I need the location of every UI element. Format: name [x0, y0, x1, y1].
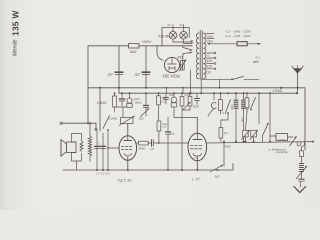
svg-text:0,1MΩ: 0,1MΩ: [108, 117, 118, 121]
connector C jack x214: [213, 93, 215, 100]
wire AF component bottom link: [115, 106, 132, 108]
output transformer secondary zigzag: [80, 141, 83, 152]
connector P2 row x174: [171, 97, 177, 103]
capacitor C x168: [167, 117, 169, 132]
svg-text:5kΩ: 5kΩ: [215, 174, 221, 178]
coil L2: [243, 93, 245, 99]
wire cap branch x97: [96, 131, 98, 170]
tap 220V: [207, 38, 214, 40]
box 1000 wave switch: [276, 134, 288, 141]
antenna coil variable: [300, 164, 304, 172]
loudspeaker driver box: [67, 142, 77, 153]
svg-text:6V: 6V: [180, 23, 183, 27]
lamp La2 dial: [183, 28, 185, 32]
wire bus link verticals: [166, 88, 168, 93]
wire V1 grid left: [108, 147, 119, 149]
wire branch x108: [107, 130, 109, 170]
svg-text:125: 125: [207, 64, 213, 68]
resistor R filter 8k: [129, 44, 140, 48]
wire filter cap drop 1: [118, 46, 120, 88]
transformer T1 primary winding: [196, 33, 199, 79]
wire left AF branch: [99, 88, 101, 131]
wire lamp top rail: [162, 28, 189, 46]
wire bottom ground bus: [63, 164, 233, 171]
resistor R grid 0.4M: [114, 93, 116, 96]
capacitor C row x197: [196, 93, 198, 98]
switch S1 mains: [232, 76, 244, 79]
wire rectifier anode feed: [157, 46, 163, 60]
connector P1 grid cap: [129, 93, 131, 98]
connector jack right: [297, 142, 301, 146]
svg-text:240: 240: [207, 35, 213, 39]
wire voltage selector with fuse: [209, 43, 237, 45]
title Mende 135 W: [11, 10, 21, 56]
svg-text:≈0,1: ≈0,1: [255, 56, 261, 60]
svg-text:0,4 ‒ +125 ‒ 110V: 0,4 ‒ +125 ‒ 110V: [226, 34, 252, 38]
svg-text:7.5: 7.5: [162, 125, 166, 129]
tube V2 REN904: [188, 133, 207, 161]
wire speaker feed: [87, 88, 89, 123]
svg-text:6V: 6V: [168, 23, 171, 27]
tube V1 output RES164: [119, 136, 137, 161]
capacitor C x103: [100, 145, 105, 147]
svg-text:L 37: L 37: [192, 177, 200, 182]
svg-text:2·: 2·: [98, 142, 100, 146]
resistor R x159 lower: [157, 121, 161, 131]
wire B+ top rail: [88, 46, 192, 88]
svg-text:500: 500: [139, 117, 144, 121]
wire heater pair to transformer: [183, 48, 192, 54]
wire main top bus: [88, 88, 305, 150]
svg-text:2000: 2000: [231, 104, 234, 110]
tap 125V: [207, 63, 214, 65]
capacitor C coupling left: [121, 93, 123, 99]
ground earth arrow: [294, 187, 306, 193]
capacitor C antenna series: [299, 178, 304, 180]
wire transformer bottom to switch: [201, 78, 232, 80]
capacitor C 2uF no.1: [115, 71, 123, 73]
switch S3: [226, 100, 231, 113]
svg-text:8kΩ: 8kΩ: [130, 50, 137, 54]
potentiometer arrow right: [290, 137, 297, 147]
svg-text:Tgl 5.36: Tgl 5.36: [117, 177, 132, 182]
wire heater return to bus: [190, 70, 192, 93]
tap 0: [207, 52, 214, 54]
svg-text:μF: μF: [151, 147, 155, 151]
node junction dots second bus: [114, 92, 299, 94]
resistor R row x182: [180, 97, 184, 107]
loudspeaker frame loop: [72, 134, 82, 162]
node dots bottom bus: [96, 169, 219, 171]
svg-text:150: 150: [207, 59, 213, 63]
wire tube V2 anode up: [174, 118, 197, 134]
svg-text:1000: 1000: [279, 138, 286, 142]
wire rectifier cathode to resistor: [180, 64, 183, 66]
svg-text:2μF: 2μF: [107, 73, 115, 77]
wire wave switch feed: [269, 93, 271, 136]
svg-text:4/0,5: 4/0,5: [134, 97, 141, 101]
svg-text:0: 0: [208, 54, 210, 58]
resistor R row x190: [188, 97, 192, 107]
potentiometer trim pair: [243, 131, 249, 137]
svg-text:5000: 5000: [225, 145, 232, 149]
wire filter cap drop 2: [145, 46, 147, 88]
svg-text:135 W: 135 W: [11, 10, 21, 36]
resistor R coupling 800: [137, 142, 139, 144]
wire tube V2 right cathode tap: [223, 142, 225, 167]
resistor R x221 mid: [219, 128, 223, 139]
potentiometer arrow on bus: [210, 165, 223, 172]
wire tube V1 anode up: [127, 124, 129, 136]
svg-text:10k: 10k: [169, 93, 174, 97]
svg-text:Mende: Mende: [13, 40, 19, 56]
capacitor C 2uF no.2: [142, 71, 150, 73]
capacitor C x97: [94, 145, 99, 147]
tube V3 rectifier RGN354: [164, 57, 179, 72]
resistor R row x158: [157, 96, 161, 105]
tap 150V: [207, 57, 214, 59]
svg-text:470kΩ: 470kΩ: [273, 89, 283, 93]
antenna chain resistor: [302, 142, 305, 151]
output transformer primary zigzag: [88, 136, 91, 156]
wire switch to bus: [219, 79, 221, 88]
potentiometer P vol 0.1M: [121, 118, 134, 124]
antenna A: [297, 73, 299, 94]
transformer T1 mains core: [199, 31, 201, 80]
tap 240V: [207, 33, 214, 35]
svg-text:2μF: 2μF: [134, 73, 142, 77]
capacitor C tone x146: [145, 93, 147, 105]
resistor R 300 right: [239, 97, 241, 99]
node junction dots top bus: [99, 87, 299, 89]
svg-text:V12-45: V12-45: [158, 34, 169, 38]
svg-text:60kΩ: 60kΩ: [135, 101, 142, 105]
potentiometer arrow row x186: [183, 102, 191, 110]
wire lamp returns to transformer: [173, 39, 193, 42]
resistor R x220: [219, 100, 223, 111]
svg-text:1Ω: 1Ω: [224, 131, 228, 135]
svg-text:0,1μ: 0,1μ: [169, 132, 175, 136]
wire detector bus: [206, 142, 313, 143]
tap 110V: [207, 68, 214, 70]
transformer T1 secondary winding: [203, 33, 206, 79]
svg-text:0,4MΩ: 0,4MΩ: [97, 101, 107, 105]
capacitor C coupling series: [151, 140, 153, 146]
svg-text:RGN 354: RGN 354: [162, 74, 180, 79]
fuse Si: [237, 42, 247, 46]
lamp La1 dial: [172, 28, 174, 32]
svg-text:0,2 ‒ +240 ‒ 220V: 0,2 ‒ +240 ‒ 220V: [226, 30, 252, 34]
node dots detector bus: [235, 141, 271, 143]
svg-text:aW: aW: [253, 60, 259, 64]
svg-text:0,1: 0,1: [162, 99, 166, 103]
svg-text:Ant.Erde: Ant.Erde: [275, 150, 288, 154]
capacitor C row x166: [165, 93, 167, 97]
switch S2 af: [103, 116, 110, 129]
svg-text:+260V: +260V: [141, 40, 152, 44]
wire transformer core to bus: [200, 79, 202, 93]
svg-text:800Ω: 800Ω: [139, 147, 146, 151]
svg-text:5000: 5000: [193, 105, 199, 109]
svg-text:1·IV 05 MW·: 1·IV 05 MW·: [96, 171, 111, 175]
svg-text:300: 300: [241, 117, 245, 122]
wire speaker top link: [62, 123, 96, 128]
wire cap branch x103: [102, 133, 104, 170]
wire second bus: [119, 88, 297, 93]
svg-text:110: 110: [206, 71, 212, 75]
loudspeaker LS cone: [61, 140, 67, 157]
switch S5: [263, 123, 269, 136]
resistor R hum 40ohm: [181, 61, 185, 71]
coil L1: [235, 93, 237, 99]
switch S4: [251, 98, 256, 110]
